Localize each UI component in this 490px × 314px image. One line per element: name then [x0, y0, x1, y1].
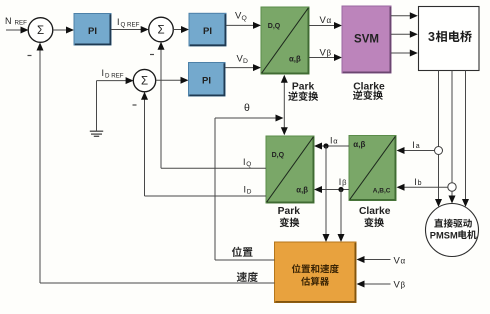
svg-text:α,β: α,β — [296, 186, 308, 195]
wire I alpha down to estimator — [325, 146, 327, 235]
svg-text:N: N — [5, 16, 12, 26]
svg-text:I: I — [339, 177, 342, 187]
PI controller PI2 (Iq) — [189, 13, 226, 46]
svg-text:D REF: D REF — [105, 73, 124, 80]
svg-text:θ: θ — [244, 102, 250, 114]
minus sign at S2 — [150, 54, 154, 56]
svg-text:Clarke: Clarke — [359, 206, 391, 217]
svg-text:Σ: Σ — [141, 76, 148, 88]
svg-text:A,B,C: A,B,C — [373, 188, 391, 195]
position and speed estimator block — [275, 242, 357, 303]
svg-text:D: D — [247, 189, 252, 196]
svg-text:Q REF: Q REF — [121, 22, 140, 29]
wire PI3 to inverse Park (Vd) — [225, 67, 256, 69]
wire PI1 to S2 — [111, 29, 143, 31]
svg-text:V: V — [320, 48, 327, 59]
svg-text:β: β — [401, 281, 406, 290]
svg-text:Clarke: Clarke — [353, 81, 385, 92]
svg-text:V: V — [394, 256, 401, 267]
svg-text:α,β: α,β — [353, 140, 365, 149]
svg-text:I: I — [330, 135, 333, 145]
wire Vb — [309, 57, 337, 59]
svg-text:Park: Park — [292, 81, 315, 92]
inverse Park transform block — [261, 7, 309, 74]
svg-text:I: I — [243, 157, 246, 167]
label 速度 (speed) — [237, 272, 247, 282]
svg-text:α,β: α,β — [289, 55, 301, 64]
wire Ib — [404, 186, 448, 188]
wire theta vertical to both Park blocks — [283, 82, 285, 129]
svg-text:D,Q: D,Q — [268, 23, 281, 30]
summing junction S1 — [28, 18, 53, 43]
wire I beta Clarke to Park — [321, 189, 349, 191]
current sensor A — [435, 147, 443, 155]
svg-text:α: α — [333, 136, 338, 145]
motor circle — [426, 204, 479, 257]
wire position output / theta — [215, 259, 275, 261]
svg-text:V: V — [394, 280, 401, 291]
svg-text:V: V — [320, 15, 327, 26]
label 位置 (position) — [232, 247, 242, 257]
wire PI2 to inverse Park (Vq) — [226, 24, 256, 26]
svg-text:Park: Park — [278, 206, 301, 217]
wire S3 to PI3 — [156, 79, 183, 81]
ground — [96, 81, 98, 131]
svg-text:I: I — [244, 184, 247, 194]
wire phase C — [465, 71, 467, 200]
wire phase B — [451, 71, 453, 183]
svg-text:α: α — [327, 16, 332, 25]
svg-text:a: a — [416, 143, 420, 150]
svg-text:PI: PI — [88, 26, 97, 37]
svg-text:α: α — [401, 257, 406, 266]
svg-text:I: I — [117, 17, 120, 27]
svg-text:I: I — [412, 140, 415, 150]
svg-text:3: 3 — [428, 30, 435, 44]
current sensor B — [448, 183, 456, 191]
junction dot I beta — [338, 187, 343, 192]
summing junction S3 — [133, 69, 155, 91]
wire Va into estimator — [364, 259, 391, 261]
svg-text:PI: PI — [202, 76, 211, 87]
svg-text:PI: PI — [203, 26, 212, 37]
wire Ia — [404, 150, 434, 152]
wire Id feedback — [145, 195, 267, 197]
svg-text:PMSM: PMSM — [430, 230, 458, 240]
wires SVM to bridge — [391, 15, 412, 17]
wire ID REF to S3 — [97, 80, 129, 82]
minus sign at S1 — [28, 55, 32, 57]
wire I alpha Clarke to Park — [321, 145, 349, 147]
PI controller PI1 (speed) — [74, 14, 111, 46]
wire Va — [309, 25, 337, 27]
svg-text:Q: Q — [246, 161, 251, 168]
wire Iq feedback — [161, 167, 266, 169]
svg-text:Σ: Σ — [157, 25, 164, 37]
svg-text:Q: Q — [242, 15, 247, 22]
minus sign at S3 — [133, 104, 137, 106]
svg-text:REF: REF — [15, 20, 28, 27]
svg-text:β: β — [327, 49, 332, 58]
junction dot I alpha — [323, 143, 328, 148]
wire theta horizontal — [215, 117, 277, 119]
wire N REF input — [6, 29, 22, 31]
wire S1 to PI1 — [53, 29, 67, 31]
svg-text:SVM: SVM — [354, 34, 379, 46]
summing junction S2 — [149, 17, 174, 42]
wire phase A — [438, 71, 440, 147]
svg-text:Σ: Σ — [37, 25, 44, 37]
svg-text:I: I — [414, 177, 417, 187]
3-phase bridge block — [419, 7, 480, 71]
wire speed output to S1 — [40, 282, 275, 284]
Park transform block — [266, 136, 314, 203]
svg-text:D: D — [243, 58, 248, 65]
SVM block — [342, 6, 391, 73]
Clarke transform block — [349, 136, 396, 201]
wire Vb into estimator — [364, 283, 391, 285]
svg-text:D,Q: D,Q — [272, 152, 285, 159]
svg-text:β: β — [342, 178, 347, 187]
wire S2 to PI2 — [173, 29, 183, 31]
svg-text:b: b — [418, 180, 422, 187]
wire I beta down to estimator — [340, 190, 342, 235]
svg-text:I: I — [102, 68, 105, 78]
PI controller PI3 (Id) — [189, 63, 226, 97]
